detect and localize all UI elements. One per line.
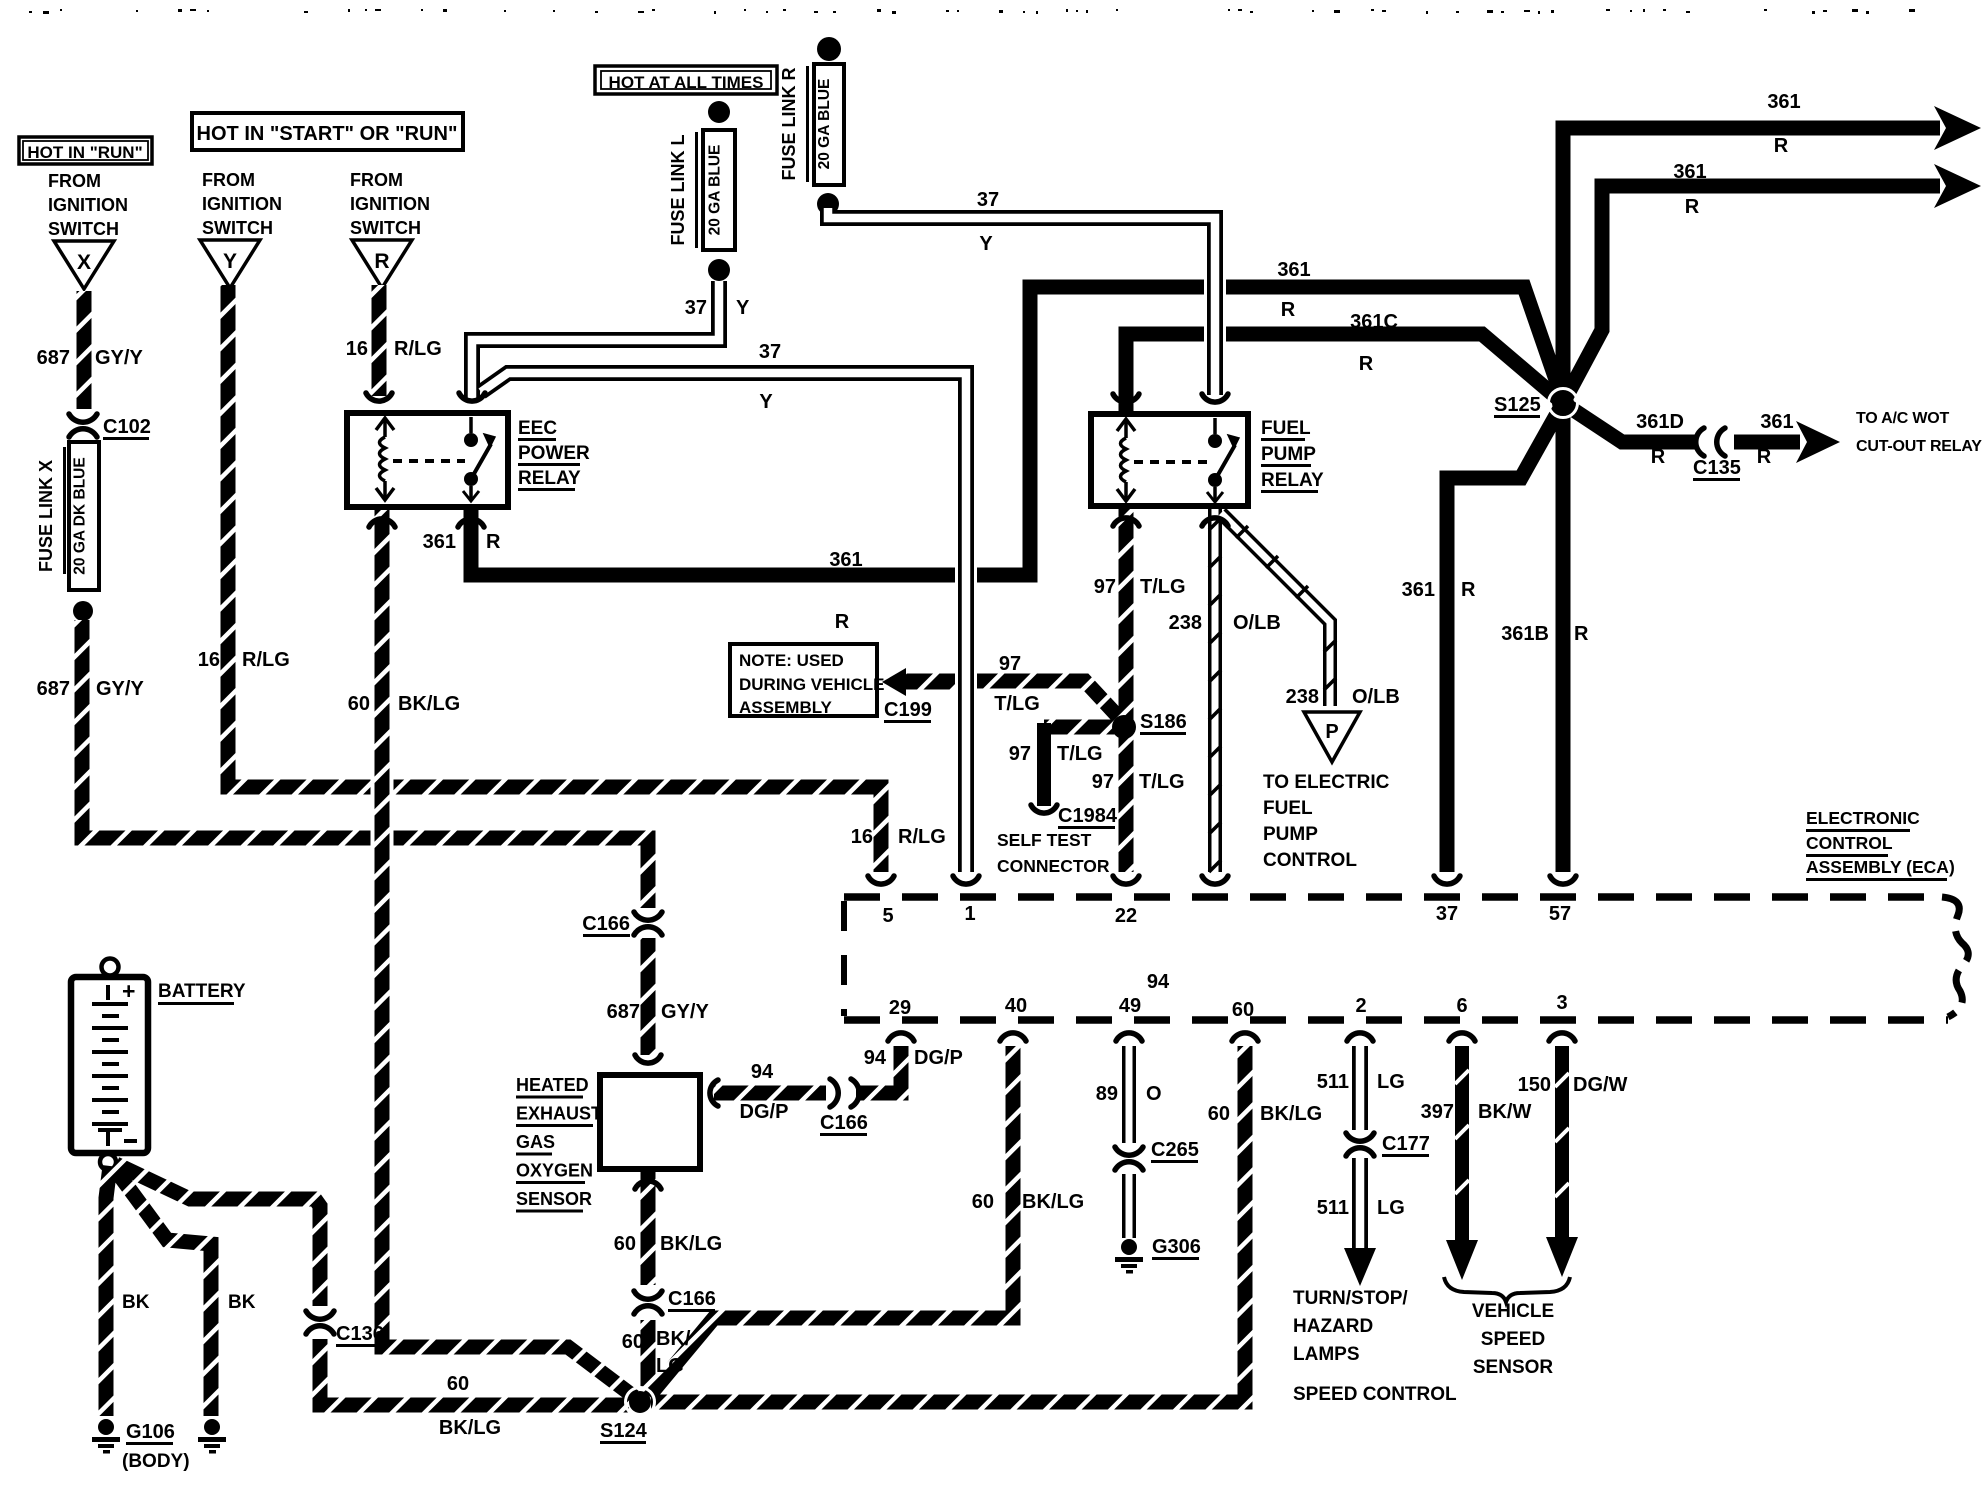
- svg-text:FROM: FROM: [48, 171, 101, 191]
- wire 97 T/LG from fuel pump relay to ECA pin 22: [1119, 507, 1134, 872]
- label 37 Y to ECA pin 1: [759, 341, 781, 413]
- svg-text:R/LG: R/LG: [898, 826, 946, 848]
- wire 361 R second feed with arrow: [1563, 164, 1981, 403]
- fuse link R lower dot: [817, 193, 839, 215]
- connector C166 on 94 wire: [820, 1079, 868, 1136]
- ground at second battery lead: [198, 1419, 226, 1454]
- svg-text:DURING VEHICLE: DURING VEHICLE: [739, 675, 884, 694]
- ECA pin numbers top: [882, 903, 1571, 927]
- svg-text:EXHAUST: EXHAUST: [516, 1104, 602, 1124]
- svg-text:R: R: [374, 250, 389, 273]
- svg-text:BK/LG: BK/LG: [1022, 1191, 1084, 1213]
- wire 94 DG/P from HEGO sensor to C166: [714, 1086, 826, 1101]
- fuse link X lower dot: [73, 601, 93, 621]
- scan noise top edge: [29, 9, 1915, 14]
- label 37 Y at fuse link L: [685, 297, 750, 319]
- svg-text:R: R: [1774, 135, 1789, 157]
- svg-text:60: 60: [1208, 1103, 1230, 1125]
- label 60 BK/LG on EEC wire: [348, 693, 460, 715]
- label SELF TEST CONNECTOR: [997, 830, 1110, 876]
- ignition feed triangle R: [352, 240, 412, 288]
- svg-text:238: 238: [1286, 686, 1319, 708]
- svg-text:CUT-OUT RELAY: CUT-OUT RELAY: [1856, 438, 1982, 455]
- svg-text:ELECTRONIC: ELECTRONIC: [1806, 808, 1920, 828]
- svg-text:BK/LG: BK/LG: [660, 1233, 722, 1255]
- fuse link X with C102: [77, 291, 92, 409]
- label 16 R/LG on ignition R wire: [346, 338, 442, 360]
- connector C265: [1115, 1139, 1199, 1170]
- svg-text:361C: 361C: [1350, 311, 1398, 333]
- svg-text:O: O: [1146, 1083, 1162, 1105]
- ECA pin forks top row: [868, 876, 1576, 884]
- svg-text:SELF TEST: SELF TEST: [997, 830, 1092, 850]
- wire 60 BK/LG from ECA pin 60 to S124: [651, 1046, 1245, 1402]
- label 361C R label: [1350, 311, 1398, 375]
- label 94 inside ECA: [1147, 971, 1170, 993]
- NOTE box used during vehicle assembly: [730, 644, 884, 717]
- svg-text:NOTE: USED: NOTE: USED: [739, 651, 844, 670]
- svg-text:511: 511: [1317, 1071, 1349, 1093]
- label 60 BK/LG pin 60 wire: [1208, 1103, 1322, 1125]
- svg-text:Y: Y: [979, 233, 993, 255]
- svg-text:R: R: [1359, 353, 1374, 375]
- HEGO sensor box: [600, 1055, 718, 1189]
- self test connector C1984 fork: [1031, 805, 1118, 829]
- svg-text:Y: Y: [759, 391, 773, 413]
- svg-text:CONNECTOR: CONNECTOR: [997, 856, 1110, 876]
- svg-text:361: 361: [423, 531, 456, 553]
- svg-text:60: 60: [447, 1373, 469, 1395]
- connector C166 on 60 wire: [634, 1288, 716, 1314]
- svg-text:94: 94: [1147, 971, 1170, 993]
- label 511 LG upper: [1317, 1071, 1405, 1093]
- svg-text:238: 238: [1169, 612, 1202, 634]
- svg-text:60: 60: [1232, 999, 1254, 1021]
- fuel pump control triangle P: [1304, 712, 1360, 762]
- svg-text:C177: C177: [1382, 1133, 1430, 1155]
- svg-text:C135: C135: [1693, 457, 1741, 479]
- svg-text:BATTERY: BATTERY: [158, 981, 246, 1002]
- label 97 T/LG upper: [1094, 576, 1186, 598]
- splice S124: [600, 1388, 655, 1445]
- svg-text:(BODY): (BODY): [122, 1451, 190, 1472]
- wire 16 R/LG from ignition R to EEC relay: [372, 285, 387, 396]
- svg-text:SPEED: SPEED: [1481, 1329, 1545, 1350]
- ECA right brace edge: [1942, 897, 1968, 1017]
- svg-text:37: 37: [1436, 903, 1458, 925]
- label 150 DG/W label: [1518, 1074, 1628, 1096]
- wire 89 O from C265 to G306: [1122, 1174, 1136, 1238]
- svg-text:60: 60: [348, 693, 370, 715]
- wire 511 LG from ECA pin 2 to C177: [1352, 1046, 1368, 1130]
- label 60 BK/LG below C166: [622, 1328, 691, 1377]
- svg-text:361: 361: [1402, 579, 1435, 601]
- svg-text:37: 37: [685, 297, 707, 319]
- svg-text:SENSOR: SENSOR: [516, 1189, 592, 1209]
- svg-text:C199: C199: [884, 699, 932, 721]
- wire 361 R top feed with arrow: [1563, 106, 1981, 403]
- svg-text:6: 6: [1456, 995, 1467, 1017]
- svg-text:R: R: [1757, 446, 1772, 468]
- header box HOT IN START OR RUN: [192, 113, 463, 150]
- svg-text:R: R: [835, 611, 850, 633]
- svg-text:3: 3: [1556, 992, 1567, 1014]
- label TO A/C WOT CUT-OUT RELAY: [1856, 410, 1982, 455]
- label 361D R label: [1636, 411, 1684, 468]
- svg-text:Y: Y: [223, 250, 237, 273]
- wire 361C R from fuel pump relay to S125: [1126, 334, 1563, 412]
- svg-text:361: 361: [1277, 259, 1310, 281]
- svg-text:GY/Y: GY/Y: [661, 1001, 709, 1023]
- svg-text:60: 60: [622, 1331, 644, 1353]
- svg-text:BK: BK: [228, 1292, 256, 1313]
- label 94 DG/P at ECA pin 29: [864, 1047, 963, 1069]
- svg-text:+: +: [122, 978, 135, 1004]
- svg-text:49: 49: [1119, 995, 1141, 1017]
- svg-text:G306: G306: [1152, 1236, 1201, 1258]
- wire 238 O/LB from fuel pump relay to ECA: [1209, 508, 1221, 872]
- svg-text:361: 361: [1673, 161, 1706, 183]
- wire BK battery to left ground G106: [106, 1166, 110, 1416]
- svg-text:FUSE LINK R: FUSE LINK R: [779, 67, 799, 180]
- connector C166 on 687 wire: [582, 912, 662, 937]
- svg-text:29: 29: [889, 997, 911, 1019]
- splice S186: [1112, 711, 1187, 739]
- label 238 O/LB vertical: [1169, 612, 1281, 634]
- label 361 R top arrow: [1767, 91, 1800, 157]
- label FUEL PUMP RELAY: [1261, 418, 1324, 493]
- header box HOT IN RUN: [19, 137, 152, 164]
- wire 361 R from C135 to A/C WOT cut-out relay: [1734, 421, 1840, 463]
- label 89 O label: [1096, 1083, 1162, 1105]
- fuel pump relay box: [1091, 414, 1248, 506]
- svg-text:PUMP: PUMP: [1261, 444, 1316, 465]
- svg-text:16: 16: [851, 826, 873, 848]
- ECA pin forks bottom row: [888, 1033, 1575, 1041]
- wire 37 Y from EEC relay node to ECA pin 1: [481, 373, 966, 872]
- svg-text:IGNITION: IGNITION: [202, 194, 282, 214]
- svg-text:T/LG: T/LG: [1139, 771, 1185, 793]
- vehicle speed sensor brace: [1444, 1277, 1570, 1302]
- fuse link L label: [668, 132, 698, 248]
- label 687 GY/Y lower: [37, 678, 145, 700]
- EEC relay pin forks: [366, 393, 485, 527]
- svg-text:SWITCH: SWITCH: [350, 218, 421, 238]
- svg-text:DG/P: DG/P: [740, 1101, 789, 1123]
- svg-text:HOT IN "RUN": HOT IN "RUN": [27, 143, 142, 162]
- svg-text:HOT AT ALL TIMES: HOT AT ALL TIMES: [609, 73, 764, 92]
- header box HOT AT ALL TIMES: [595, 66, 777, 94]
- svg-text:C136: C136: [336, 1323, 384, 1345]
- svg-text:P: P: [1325, 721, 1338, 743]
- svg-text:EEC: EEC: [518, 418, 557, 439]
- svg-text:T/LG: T/LG: [1057, 743, 1103, 765]
- wire 361 R from S125 to ECA pin 37: [1447, 403, 1563, 872]
- svg-text:T/LG: T/LG: [1140, 576, 1186, 598]
- svg-text:361: 361: [829, 549, 862, 571]
- splice S125: [1494, 389, 1578, 419]
- svg-text:C102: C102: [103, 416, 151, 438]
- svg-text:DG/W: DG/W: [1573, 1074, 1628, 1096]
- wire 60 BK/LG from ECA pin 40 to S124: [649, 1046, 1013, 1396]
- svg-text:R: R: [486, 531, 501, 553]
- EEC power relay box: [347, 413, 508, 507]
- svg-text:R/LG: R/LG: [242, 649, 290, 671]
- fuse link R body 20 GA BLUE: [814, 64, 844, 185]
- svg-text:BK/LG: BK/LG: [439, 1417, 501, 1439]
- wire 89 O from ECA pin 49 to C265: [1122, 1046, 1136, 1143]
- ignition feed triangle X: [54, 241, 114, 289]
- label FROM IGNITION SWITCH (Y): [202, 170, 282, 238]
- label TURN/STOP HAZARD LAMPS: [1293, 1288, 1408, 1365]
- svg-text:Y: Y: [736, 297, 750, 319]
- label HEATED EXHAUST GAS OXYGEN SENSOR: [516, 1075, 602, 1213]
- label 16 R/LG on ignition Y wire: [198, 649, 290, 671]
- wire 150 DG/W from ECA pin 3 with arrow: [1546, 1046, 1578, 1277]
- ECA dashed outline bottom: [844, 1016, 1948, 1024]
- wire 361B R from S125 to ECA pin 57: [1556, 403, 1571, 872]
- svg-text:C166: C166: [820, 1112, 868, 1134]
- wire battery to C136: [116, 1164, 320, 1306]
- svg-text:R: R: [1461, 579, 1476, 601]
- svg-text:C166: C166: [668, 1288, 716, 1310]
- ground G106 body: [92, 1419, 190, 1472]
- svg-text:BK: BK: [122, 1292, 150, 1313]
- svg-text:687: 687: [37, 347, 70, 369]
- svg-text:OXYGEN: OXYGEN: [516, 1161, 593, 1181]
- svg-text:FUEL: FUEL: [1261, 418, 1311, 439]
- svg-text:60: 60: [614, 1233, 636, 1255]
- svg-text:361D: 361D: [1636, 411, 1684, 433]
- svg-text:37: 37: [759, 341, 781, 363]
- label 60 BK/LG below HEGO: [614, 1233, 722, 1255]
- svg-text:HAZARD: HAZARD: [1293, 1316, 1373, 1337]
- label 97 T/LG lower: [1092, 771, 1185, 793]
- svg-text:57: 57: [1549, 903, 1571, 925]
- svg-text:16: 16: [198, 649, 220, 671]
- svg-text:22: 22: [1115, 905, 1137, 927]
- svg-text:97: 97: [1092, 771, 1114, 793]
- label 511 LG lower: [1317, 1197, 1405, 1219]
- wire 60 BK/LG from C136 to S124: [320, 1339, 629, 1405]
- ECA dashed outline top: [844, 893, 1942, 901]
- svg-text:ASSEMBLY: ASSEMBLY: [739, 698, 833, 717]
- ECA dashed outline left edge: [841, 901, 847, 1016]
- svg-text:687: 687: [37, 678, 70, 700]
- fuel pump relay pin forks: [1113, 394, 1228, 526]
- svg-text:S125: S125: [1494, 394, 1541, 416]
- svg-text:GAS: GAS: [516, 1132, 555, 1152]
- fuse link L body 20 GA BLUE: [703, 130, 735, 250]
- svg-text:R: R: [1574, 623, 1589, 645]
- svg-text:97: 97: [999, 653, 1021, 675]
- svg-text:S124: S124: [600, 1420, 648, 1442]
- svg-text:511: 511: [1317, 1197, 1349, 1219]
- label 97 T/LG at C199: [994, 653, 1040, 715]
- wire 397 BK/W from ECA pin 6 with arrow: [1446, 1046, 1478, 1280]
- ignition feed triangle Y: [200, 240, 260, 288]
- svg-text:TO A/C WOT: TO A/C WOT: [1856, 410, 1950, 427]
- label 238 O/LB at triangle P: [1286, 686, 1400, 708]
- svg-text:POWER: POWER: [518, 443, 590, 464]
- fuse link X label: [36, 447, 66, 574]
- svg-text:397: 397: [1421, 1101, 1454, 1123]
- svg-text:CONTROL: CONTROL: [1806, 833, 1893, 853]
- svg-text:R: R: [1281, 299, 1296, 321]
- svg-text:BK/: BK/: [656, 1328, 691, 1350]
- ground G306: [1115, 1236, 1201, 1274]
- svg-text:5: 5: [882, 905, 893, 927]
- ECA pin numbers bottom: [889, 992, 1568, 1021]
- svg-text:RELAY: RELAY: [1261, 470, 1324, 491]
- wire 60 BK/LG from HEGO sensor to C166 to S124: [641, 1172, 656, 1394]
- label 397 BK/W label: [1421, 1101, 1532, 1123]
- label 97 T/LG to C1984: [1009, 743, 1103, 765]
- svg-text:LG: LG: [1377, 1197, 1405, 1219]
- label 361B R label: [1501, 623, 1589, 645]
- svg-text:VEHICLE: VEHICLE: [1472, 1301, 1554, 1322]
- wire BK battery to right ground: [114, 1168, 211, 1416]
- svg-text:R/LG: R/LG: [394, 338, 442, 360]
- svg-text:BK/LG: BK/LG: [398, 693, 460, 715]
- svg-text:97: 97: [1009, 743, 1031, 765]
- svg-text:150: 150: [1518, 1074, 1551, 1096]
- label 94 DG/P on HEGO output: [740, 1061, 789, 1123]
- label 687 GY/Y upper: [37, 347, 144, 369]
- wire 16 R/LG from ignition Y to ECA pin 5: [228, 285, 881, 872]
- svg-text:20 GA BLUE: 20 GA BLUE: [707, 145, 724, 236]
- wire 511 LG from C177 to turn/stop lamps arrow: [1344, 1158, 1376, 1286]
- label 687 GY/Y at C166: [607, 1001, 710, 1023]
- label 361 R at EEC relay output: [423, 531, 501, 553]
- svg-text:DG/P: DG/P: [914, 1047, 963, 1069]
- svg-text:SWITCH: SWITCH: [202, 218, 273, 238]
- label BK battery leads: [122, 1292, 256, 1313]
- wire 361D R from S125 to C135: [1563, 403, 1698, 442]
- label 361 R upper horizontal: [1277, 259, 1310, 321]
- svg-text:SPEED CONTROL: SPEED CONTROL: [1293, 1384, 1457, 1405]
- svg-text:O/LB: O/LB: [1352, 686, 1400, 708]
- label BATTERY: [158, 981, 246, 1005]
- svg-text:LG: LG: [656, 1355, 684, 1377]
- svg-text:94: 94: [751, 1061, 774, 1083]
- svg-text:SWITCH: SWITCH: [48, 219, 119, 239]
- fuse link L upper dot: [708, 101, 730, 123]
- svg-text:HEATED: HEATED: [516, 1075, 589, 1095]
- wire 97 T/LG branch to S186 and C199: [902, 681, 1124, 723]
- svg-text:C166: C166: [582, 913, 630, 935]
- label 361 R on horizontal run: [829, 549, 862, 633]
- label 16 R/LG at ECA pin 5: [851, 826, 946, 848]
- wire 687 GY/Y from fuse link X to C166 and HEGO sensor: [82, 620, 648, 1055]
- svg-text:IGNITION: IGNITION: [48, 195, 128, 215]
- svg-text:40: 40: [1005, 995, 1027, 1017]
- fuse link L lower dot: [708, 259, 730, 281]
- svg-text:361B: 361B: [1501, 623, 1549, 645]
- svg-text:CONTROL: CONTROL: [1263, 850, 1357, 871]
- battery: [71, 959, 148, 1171]
- svg-text:ASSEMBLY (ECA): ASSEMBLY (ECA): [1806, 857, 1955, 877]
- wire 37 Y from fuse link L to EEC relay: [472, 281, 719, 399]
- wire 60 BK/LG from EEC relay to S124: [382, 508, 637, 1399]
- svg-text:TURN/STOP/: TURN/STOP/: [1293, 1288, 1408, 1309]
- connector C177: [1346, 1133, 1430, 1157]
- svg-text:G106: G106: [126, 1421, 175, 1443]
- svg-text:2: 2: [1355, 995, 1366, 1017]
- svg-text:S186: S186: [1140, 711, 1187, 733]
- wire 97 T/LG from S186 to self test connector C1984: [1044, 723, 1124, 806]
- connector C102: [69, 414, 151, 440]
- svg-text:PUMP: PUMP: [1263, 824, 1318, 845]
- svg-text:FUSE LINK X: FUSE LINK X: [36, 460, 56, 572]
- fuse link R upper dot: [817, 37, 841, 61]
- label VEHICLE SPEED SENSOR: [1472, 1301, 1554, 1378]
- svg-text:TO ELECTRIC: TO ELECTRIC: [1263, 772, 1390, 793]
- svg-text:R: R: [1685, 196, 1700, 218]
- svg-text:HOT IN "START" OR "RUN": HOT IN "START" OR "RUN": [197, 123, 458, 145]
- svg-text:GY/Y: GY/Y: [96, 678, 144, 700]
- svg-text:SENSOR: SENSOR: [1473, 1357, 1554, 1378]
- svg-text:X: X: [77, 251, 91, 274]
- svg-text:687: 687: [607, 1001, 640, 1023]
- svg-text:FROM: FROM: [350, 170, 403, 190]
- svg-text:1: 1: [964, 903, 975, 925]
- svg-text:BK/W: BK/W: [1478, 1101, 1531, 1123]
- label 361 R to ECA pin 37: [1402, 579, 1476, 601]
- connector C199 arrow: [882, 668, 954, 723]
- svg-text:60: 60: [972, 1191, 994, 1213]
- svg-text:T/LG: T/LG: [994, 693, 1040, 715]
- svg-text:361: 361: [1760, 411, 1793, 433]
- svg-text:C1984: C1984: [1058, 805, 1118, 827]
- svg-text:LG: LG: [1377, 1071, 1405, 1093]
- label 361 R after C135: [1757, 411, 1794, 468]
- label 60 BK/LG pin 40 wire: [972, 1191, 1084, 1213]
- wire 361 R from EEC relay to S125: [471, 287, 1563, 575]
- connector C136: [306, 1311, 384, 1347]
- svg-text:16: 16: [346, 338, 368, 360]
- svg-text:97: 97: [1094, 576, 1116, 598]
- svg-text:37: 37: [977, 189, 999, 211]
- svg-text:94: 94: [864, 1047, 887, 1069]
- svg-text:GY/Y: GY/Y: [95, 347, 143, 369]
- fuse link R label: [779, 66, 809, 182]
- wire 37 Y from fuse link R to fuel pump relay: [828, 208, 1215, 395]
- label 60 BK/LG at S124: [439, 1373, 501, 1439]
- label 361 R second arrow: [1673, 161, 1706, 218]
- fuse link X body 20 GA DK BLUE: [69, 442, 99, 590]
- svg-text:FROM: FROM: [202, 170, 255, 190]
- wire 238 O/LB branch to fuel pump control: [1221, 513, 1336, 706]
- svg-text:89: 89: [1096, 1083, 1118, 1105]
- label EEC POWER RELAY: [518, 418, 590, 491]
- svg-text:BK/LG: BK/LG: [1260, 1103, 1322, 1125]
- svg-text:20 GA DK BLUE: 20 GA DK BLUE: [72, 457, 89, 574]
- label SPEED CONTROL: [1293, 1384, 1457, 1405]
- svg-text:C265: C265: [1151, 1139, 1199, 1161]
- svg-text:IGNITION: IGNITION: [350, 194, 430, 214]
- svg-text:FUSE LINK L: FUSE LINK L: [668, 134, 688, 245]
- connector C135: [1693, 428, 1741, 481]
- label FROM IGNITION SWITCH (R): [350, 170, 430, 238]
- svg-text:LAMPS: LAMPS: [1293, 1344, 1360, 1365]
- svg-text:R: R: [1651, 446, 1666, 468]
- label FROM IGNITION SWITCH (X): [48, 171, 128, 239]
- wire 94 DG/P from C166 to ECA pin 29: [856, 1046, 901, 1093]
- svg-text:FUEL: FUEL: [1263, 798, 1313, 819]
- label 37 Y from fuse link R: [977, 189, 999, 255]
- label TO ELECTRIC FUEL PUMP CONTROL: [1263, 772, 1390, 871]
